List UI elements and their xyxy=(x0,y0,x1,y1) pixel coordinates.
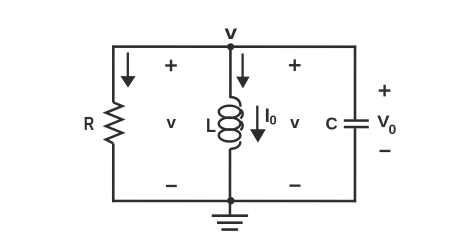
arrow current middle branch xyxy=(236,53,249,88)
label I0 xyxy=(266,109,269,122)
arrow I0 xyxy=(250,106,266,143)
svg-text:0: 0 xyxy=(269,113,276,128)
svg-text:v: v xyxy=(290,113,300,132)
arrow current left branch xyxy=(120,52,135,87)
minus left xyxy=(166,185,177,187)
wire bottom xyxy=(112,200,356,203)
wire middle lower xyxy=(229,149,232,201)
wire right upper xyxy=(354,45,357,119)
wire top xyxy=(112,45,356,48)
ground xyxy=(212,203,248,230)
wire left lower xyxy=(112,144,115,203)
svg-text:C: C xyxy=(326,114,338,134)
wire middle upper xyxy=(229,47,232,98)
plus right xyxy=(379,85,391,97)
wire right lower xyxy=(354,128,357,202)
svg-text:R: R xyxy=(84,114,94,134)
svg-text:0: 0 xyxy=(388,121,396,137)
minus right xyxy=(379,150,390,152)
svg-text:v: v xyxy=(225,22,238,44)
wire left upper xyxy=(112,45,115,102)
resistor R xyxy=(106,102,123,143)
node v dot top xyxy=(227,43,234,50)
inductor L coil xyxy=(219,97,243,149)
plus middle xyxy=(289,59,301,71)
svg-text:L: L xyxy=(206,116,216,137)
capacitor C plates xyxy=(344,121,369,128)
plus left xyxy=(165,60,177,72)
node dot bottom xyxy=(227,197,234,204)
svg-text:v: v xyxy=(166,113,176,132)
minus middle xyxy=(289,184,300,186)
